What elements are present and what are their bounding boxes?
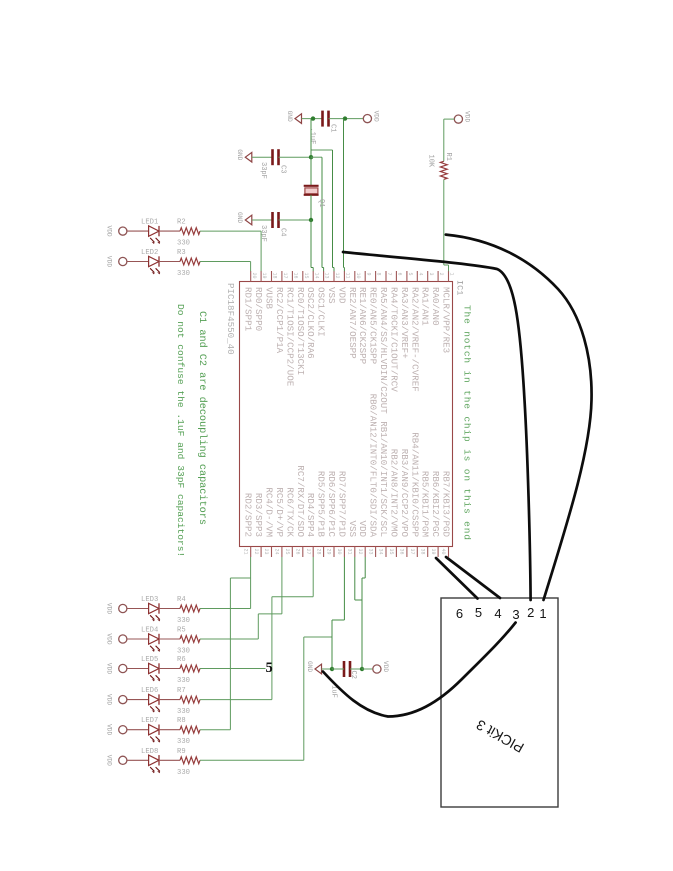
svg-text:GND: GND xyxy=(236,149,243,160)
svg-text:1: 1 xyxy=(539,606,546,621)
svg-text:3: 3 xyxy=(512,607,519,622)
svg-text:330: 330 xyxy=(177,738,190,746)
svg-text:VDD: VDD xyxy=(106,603,113,614)
wire riser to pin 30 xyxy=(343,557,345,620)
svg-text:9: 9 xyxy=(365,273,371,276)
wire VDD vertical from C1-right down to pin 11 xyxy=(343,119,345,268)
capacitor C3 plates xyxy=(273,149,279,165)
wire junction to VDD pin xyxy=(362,668,373,670)
resistor R8 330 xyxy=(180,726,200,733)
svg-text:RA0/AN0: RA0/AN0 xyxy=(430,287,441,326)
svg-text:4: 4 xyxy=(494,606,501,621)
svg-text:R2: R2 xyxy=(177,219,186,227)
resistor R1 vertical zigzag xyxy=(440,161,447,179)
svg-text:VDD: VDD xyxy=(464,111,471,122)
svg-text:6: 6 xyxy=(397,273,403,276)
svg-text:40: 40 xyxy=(440,549,446,555)
svg-text:19: 19 xyxy=(261,273,267,279)
svg-text:C4: C4 xyxy=(279,228,287,236)
pin 21 stub (RD2/SPP2) xyxy=(242,493,253,557)
svg-text:C1: C1 xyxy=(329,124,337,132)
svg-text:RE0/AN5/CK1SPP: RE0/AN5/CK1SPP xyxy=(368,287,379,365)
svg-text:GND: GND xyxy=(286,111,293,122)
svg-text:26: 26 xyxy=(294,549,300,555)
svg-text:24: 24 xyxy=(274,549,280,555)
wire net R8 staircase xyxy=(200,729,230,731)
svg-text:.1uF: .1uF xyxy=(308,128,316,145)
svg-text:VDD: VDD xyxy=(357,520,368,537)
svg-text:LED6: LED6 xyxy=(141,687,158,695)
capacitor C1 plates xyxy=(323,111,329,127)
svg-text:8: 8 xyxy=(376,273,382,276)
svg-text:RC7/RX/DT/SDO: RC7/RX/DT/SDO xyxy=(295,465,306,537)
pin 18 stub (VUSB) xyxy=(264,271,278,310)
svg-text:RD0/SPP0: RD0/SPP0 xyxy=(253,287,264,331)
pin 16 stub (RC1/T1OSI/CCP2/UOE) xyxy=(284,271,298,387)
wire VDD to LED6 anode xyxy=(127,699,149,701)
svg-text:VSS: VSS xyxy=(326,287,337,304)
pin 34 stub (RB1/AN10/INT1/SCK/SCL) xyxy=(378,421,389,557)
svg-text:5: 5 xyxy=(475,605,482,620)
svg-text:LED2: LED2 xyxy=(141,249,158,257)
svg-text:34: 34 xyxy=(378,549,384,555)
wire net R5 staircase to pin 24 xyxy=(200,638,258,640)
svg-text:RB7/KBI3/PGD: RB7/KBI3/PGD xyxy=(441,471,452,538)
wire VDD to LED4 anode xyxy=(127,638,149,640)
wire net R4 to pin 21 xyxy=(200,608,251,610)
svg-text:LED3: LED3 xyxy=(141,596,158,604)
resistor R6 330 xyxy=(180,665,200,672)
wire GND to C2 junction xyxy=(322,668,333,670)
junction node C2-left xyxy=(330,667,334,671)
pin 35 stub (RB2/AN8/INT2/VMO) xyxy=(388,449,399,557)
capacitor C2 plates xyxy=(344,661,350,677)
svg-text:RB6/KBI2/PGC: RB6/KBI2/PGC xyxy=(430,471,441,538)
wire LED4 cathode to R5 xyxy=(159,638,180,640)
junction node C1-right / VDD net xyxy=(343,116,347,120)
svg-text:LED4: LED4 xyxy=(141,627,158,635)
svg-text:5: 5 xyxy=(407,273,413,276)
wire MCLR jog to pin 1 xyxy=(444,264,449,266)
svg-text:RD6/SPP6/P1C: RD6/SPP6/P1C xyxy=(326,471,337,538)
svg-text:2: 2 xyxy=(438,273,444,276)
VDD supply pin above R1 xyxy=(454,111,470,123)
svg-text:RD5/SPP5/P1B: RD5/SPP5/P1B xyxy=(316,471,327,538)
svg-text:330: 330 xyxy=(177,240,190,248)
wire net R7 staircase to pin 27 xyxy=(200,699,272,701)
wire VDD to LED3 anode xyxy=(127,608,149,610)
pin 26 stub (RC7/RX/DT/SDO) xyxy=(294,465,305,557)
svg-text:5: 5 xyxy=(266,660,273,676)
wire C2 right plate to VDD junction xyxy=(350,668,362,670)
junction node OSC1/C3 xyxy=(309,155,313,159)
wire R1 bottom down (MCLR net) xyxy=(443,179,445,265)
svg-text:RE2/AN7/OESPP: RE2/AN7/OESPP xyxy=(347,287,358,359)
ground symbol near C4 xyxy=(236,212,252,225)
LED LED6 xyxy=(149,694,161,712)
wire VSS pin 31 short riser xyxy=(354,557,356,600)
black curve VDD net to PICKit pin 2 xyxy=(343,252,531,600)
pin 24 stub (RC5/D+/VP) xyxy=(274,487,285,557)
svg-text:39: 39 xyxy=(430,549,436,555)
pin 1 stub (MCLR/VPP/RE3) xyxy=(441,271,455,353)
crystal Q1 xyxy=(304,186,319,195)
pin 19 stub (RD0/SPP0) xyxy=(253,271,267,331)
svg-text:RA5/AN4/SS/HLVDIN/C2OUT: RA5/AN4/SS/HLVDIN/C2OUT xyxy=(378,287,389,414)
svg-text:36: 36 xyxy=(399,549,405,555)
wire LED2 cathode to R3 xyxy=(159,261,180,263)
svg-text:RA2/AN2/VREF-/CVREF: RA2/AN2/VREF-/CVREF xyxy=(409,287,420,392)
wire riser to pin 32 xyxy=(364,557,366,578)
svg-text:10K: 10K xyxy=(427,155,435,168)
LED LED3 xyxy=(149,603,161,621)
svg-text:VDD: VDD xyxy=(106,256,113,267)
svg-text:14: 14 xyxy=(313,273,319,279)
svg-text:R8: R8 xyxy=(177,717,186,725)
svg-text:25: 25 xyxy=(284,549,290,555)
pin 39 stub (RB6/KBI2/PGC) xyxy=(430,471,441,557)
svg-text:C3: C3 xyxy=(279,165,287,173)
svg-text:The notch in the chip is on th: The notch in the chip is on this end xyxy=(462,305,473,541)
wire OSC1 vertical down to pin 13 xyxy=(321,157,323,267)
junction node C1-left xyxy=(311,116,315,120)
svg-text:VDD: VDD xyxy=(106,724,113,735)
svg-text:LED1: LED1 xyxy=(141,219,158,227)
svg-text:32: 32 xyxy=(357,549,363,555)
svg-text:RC2/CCP1/P1A: RC2/CCP1/P1A xyxy=(274,287,285,354)
svg-text:RC1/T1OSI/CCP2/UOE: RC1/T1OSI/CCP2/UOE xyxy=(284,287,295,387)
svg-text:23: 23 xyxy=(263,549,269,555)
pin 14 stub (OSC2/CLKO/RA6) xyxy=(305,271,319,359)
capacitor C4 plates xyxy=(273,212,279,228)
wire net R9 staircase to GND node xyxy=(200,759,304,761)
pin 25 stub (RC6/TX/CK) xyxy=(284,487,295,557)
pin 10 stub (RE2/AN7/OESPP) xyxy=(347,271,361,359)
svg-text:R1: R1 xyxy=(444,153,452,161)
LED LED4 xyxy=(149,634,161,652)
svg-text:VSS: VSS xyxy=(347,520,358,537)
pin 32 stub (VDD) xyxy=(357,520,368,557)
wire junction down to crystal Q1 xyxy=(310,157,312,186)
svg-text:VDD: VDD xyxy=(106,755,113,766)
VDD supply pin for LED3 xyxy=(106,603,127,614)
svg-text:33pF: 33pF xyxy=(259,225,267,242)
svg-text:GND: GND xyxy=(236,212,243,223)
pin 30 stub (RD7/SPP7/P1D) xyxy=(336,471,347,557)
svg-text:RB4/AN11/KBI0/CSSPP: RB4/AN11/KBI0/CSSPP xyxy=(409,432,420,537)
pin 11 stub (VDD) xyxy=(336,271,350,304)
LED LED8 xyxy=(149,755,161,773)
svg-text:C1 and C2 are decoupling capac: C1 and C2 are decoupling capacitors xyxy=(196,311,208,525)
svg-text:38: 38 xyxy=(419,549,425,555)
wire junction to C2 left plate xyxy=(332,668,344,670)
resistor R5 330 xyxy=(180,636,200,643)
pin 38 stub (RB5/KBI1/PGM) xyxy=(419,471,430,557)
svg-text:VDD: VDD xyxy=(336,287,347,304)
wire VDD to LED1 anode xyxy=(127,230,149,232)
VDD supply pin for LED8 xyxy=(106,755,127,766)
wire OSC2 vertical down to pin 14 xyxy=(310,220,312,268)
pin 28 stub (RD5/SPP5/P1B) xyxy=(315,471,326,557)
svg-text:21: 21 xyxy=(242,549,248,555)
LED LED2 xyxy=(149,256,161,274)
svg-text:RC0/T1OSO/T13CKI: RC0/T1OSO/T13CKI xyxy=(295,287,306,375)
svg-text:RB1/AN10/INT1/SCK/SCL: RB1/AN10/INT1/SCK/SCL xyxy=(378,421,389,537)
pin 8 stub (RE0/AN5/CK1SPP) xyxy=(368,271,382,365)
svg-text:R7: R7 xyxy=(177,687,186,695)
LED LED7 xyxy=(149,725,161,743)
wire LED3 cathode to R4 xyxy=(159,608,180,610)
svg-text:OSC2/CLKO/RA6: OSC2/CLKO/RA6 xyxy=(305,287,316,359)
black line PGD pin 40 to PICKit pin 4 xyxy=(446,557,500,598)
pin 7 stub (RA5/AN4/SS/HLVDIN/C2OUT) xyxy=(378,271,392,414)
resistor R2 330 xyxy=(180,228,200,235)
svg-text:RD4/SPP4: RD4/SPP4 xyxy=(305,493,316,538)
svg-text:VDD: VDD xyxy=(106,633,113,644)
svg-text:Q1: Q1 xyxy=(317,199,325,207)
wire VSS vertical down to pin 12 xyxy=(332,150,334,268)
pin 9 stub (RE1/AN6/CK2SPP) xyxy=(357,271,371,365)
VDD supply pin for LED1 xyxy=(106,226,127,237)
svg-text:4: 4 xyxy=(417,273,423,276)
wire LED6 cathode to R7 xyxy=(159,699,180,701)
svg-text:7: 7 xyxy=(386,273,392,276)
svg-text:R6: R6 xyxy=(177,656,186,664)
svg-text:GND: GND xyxy=(306,661,313,672)
pin 6 stub (RA4/T0CKI/C1OUT/RCV) xyxy=(388,271,402,392)
wire OSC1 branch right xyxy=(311,156,322,158)
VDD supply pin for LED2 xyxy=(106,256,127,267)
wire VSS riser from C2-left up xyxy=(331,620,333,669)
wire net R2 to pin 19 xyxy=(200,230,261,232)
svg-text:15: 15 xyxy=(303,273,309,279)
pin 4 stub (RA2/AN2/VREF-/CVREF) xyxy=(409,271,423,392)
svg-text:R5: R5 xyxy=(177,627,186,635)
svg-text:RA4/T0CKI/C1OUT/RCV: RA4/T0CKI/C1OUT/RCV xyxy=(388,287,399,392)
wire VSS branch from C1-left vertical xyxy=(311,149,333,151)
pin 5 stub (RA3/AN3/VREF+) xyxy=(399,271,413,359)
VDD supply pin for LED7 xyxy=(106,724,127,735)
svg-text:28: 28 xyxy=(315,549,321,555)
resistor R4 330 xyxy=(180,605,200,612)
pin 36 stub (RB3/AN9/CCP2/VPO) xyxy=(399,449,410,557)
VDD supply pin above C1 xyxy=(363,111,379,123)
ground symbol near C1 xyxy=(286,111,302,124)
svg-text:20: 20 xyxy=(251,273,257,279)
wire down to R1 xyxy=(443,119,445,161)
pin 37 stub (RB4/AN11/KBI0/CSSPP) xyxy=(409,432,420,557)
svg-text:RD7/SPP7/P1D: RD7/SPP7/P1D xyxy=(336,471,347,538)
svg-text:31: 31 xyxy=(347,549,353,555)
svg-text:RA3/AN3/VREF+: RA3/AN3/VREF+ xyxy=(399,287,410,359)
LED LED1 xyxy=(149,226,161,244)
wire jog VSS to VDD riser xyxy=(355,599,362,601)
wire VDD riser from C2-right up xyxy=(361,578,363,669)
black curve GND to PICKit pin 3 xyxy=(323,623,516,717)
svg-text:330: 330 xyxy=(177,769,190,777)
svg-text:MCLR/VPP/RE3: MCLR/VPP/RE3 xyxy=(441,287,452,353)
svg-text:R3: R3 xyxy=(177,249,186,257)
svg-text:12: 12 xyxy=(334,273,340,279)
wire net R6 (ends at annotation 5) xyxy=(200,668,266,670)
black line PGC pin 39 to PICKit pin 5 xyxy=(436,558,478,599)
pin 27 stub (RD4/SPP4) xyxy=(305,493,316,557)
pin 31 stub (VSS) xyxy=(347,520,358,557)
svg-text:RC6/TX/CK: RC6/TX/CK xyxy=(284,487,295,537)
svg-text:RE1/AN6/CK2SPP: RE1/AN6/CK2SPP xyxy=(357,287,368,365)
svg-text:13: 13 xyxy=(324,273,330,279)
svg-text:C2: C2 xyxy=(349,671,357,679)
svg-text:RB0/AN12/INT0/FLT0/SDI/SDA: RB0/AN12/INT0/FLT0/SDI/SDA xyxy=(368,394,379,538)
svg-text:VDD: VDD xyxy=(382,661,389,672)
svg-text:VDD: VDD xyxy=(106,226,113,237)
wire MCLR into pin 1 stub xyxy=(448,265,450,271)
svg-text:RC4/D-/VM: RC4/D-/VM xyxy=(264,487,275,537)
VDD supply pin near C2 xyxy=(373,661,389,673)
svg-text:29: 29 xyxy=(326,549,332,555)
wire GND to C1 left junction xyxy=(302,118,323,120)
svg-text:330: 330 xyxy=(177,617,190,625)
pin 23 stub (RC4/D-/VM) xyxy=(263,487,274,557)
wire LED1 cathode to R2 xyxy=(159,230,180,232)
svg-text:VUSB: VUSB xyxy=(264,287,275,310)
pin 15 stub (RC0/T1OSO/T13CKI) xyxy=(295,271,309,375)
wire jog to pin 30 riser xyxy=(332,619,344,621)
svg-text:RD2/SPP2: RD2/SPP2 xyxy=(243,493,254,537)
svg-text:10: 10 xyxy=(355,273,361,279)
wire VDD to LED8 anode xyxy=(127,759,149,761)
svg-text:RC5/D+/VP: RC5/D+/VP xyxy=(274,487,285,537)
pin 40 stub (RB7/KBI3/PGD) xyxy=(440,471,451,557)
svg-text:VDD: VDD xyxy=(106,694,113,705)
wire crystal to C4 junction xyxy=(310,195,312,220)
wire VDD to LED2 anode xyxy=(127,261,149,263)
wire VDD circle to R1 top xyxy=(444,118,455,120)
svg-text:35: 35 xyxy=(388,549,394,555)
svg-text:IC1: IC1 xyxy=(455,280,465,295)
VDD supply pin for LED6 xyxy=(106,694,127,705)
svg-text:LED5: LED5 xyxy=(141,656,158,664)
ground symbol near C3 xyxy=(236,149,252,162)
svg-text:17: 17 xyxy=(282,273,288,279)
svg-text:18: 18 xyxy=(272,273,278,279)
svg-text:RA1/AN1: RA1/AN1 xyxy=(420,287,431,326)
VDD supply pin for LED4 xyxy=(106,633,127,644)
svg-text:LED7: LED7 xyxy=(141,717,158,725)
ground symbol near C2 xyxy=(306,661,322,674)
pin 33 stub (RB0/AN12/INT0/FLT0/SDI/SDA) xyxy=(367,394,378,557)
svg-text:6: 6 xyxy=(456,606,463,621)
svg-text:3: 3 xyxy=(428,273,434,276)
wire C3 right plate to OSC1 junction xyxy=(279,156,312,158)
wire LED7 cathode to R8 xyxy=(159,729,180,731)
LED LED5 xyxy=(149,663,161,681)
svg-text:LED8: LED8 xyxy=(141,748,158,756)
wire net R3 to pin 20 xyxy=(200,261,251,263)
svg-text:30: 30 xyxy=(336,549,342,555)
svg-text:VDD: VDD xyxy=(106,663,113,674)
svg-text:11: 11 xyxy=(345,273,351,279)
svg-text:33: 33 xyxy=(367,549,373,555)
pin 22 stub (RD3/SPP3) xyxy=(253,493,264,557)
svg-text:37: 37 xyxy=(409,549,415,555)
pin 29 stub (RD6/SPP6/P1C) xyxy=(326,471,337,557)
svg-text:RD3/SPP3: RD3/SPP3 xyxy=(253,493,264,537)
wire LED8 cathode to R9 xyxy=(159,759,180,761)
svg-text:330: 330 xyxy=(177,677,190,685)
pin 2 stub (RA0/AN0) xyxy=(430,271,444,326)
wire C1 right plate to VDD xyxy=(329,118,364,120)
wire GND to C4 left plate xyxy=(252,219,273,221)
svg-text:16: 16 xyxy=(293,273,299,279)
svg-text:22: 22 xyxy=(253,549,259,555)
junction node C2-right xyxy=(360,667,364,671)
resistor R9 330 xyxy=(180,757,200,764)
junction node OSC2/C4 xyxy=(309,218,313,222)
svg-text:330: 330 xyxy=(177,270,190,278)
wire jog to pin 32 xyxy=(362,577,365,579)
svg-text:VDD: VDD xyxy=(373,111,380,122)
wire LED5 cathode to R6 xyxy=(159,668,180,670)
svg-text:RB5/KBI1/PGM: RB5/KBI1/PGM xyxy=(420,471,431,537)
svg-text:RB2/AN8/INT2/VMO: RB2/AN8/INT2/VMO xyxy=(388,449,399,538)
svg-text:330: 330 xyxy=(177,708,190,716)
IC IC1 PIC18F4550 body xyxy=(240,282,453,547)
pin 12 stub (VSS) xyxy=(326,271,340,304)
svg-text:OSC1/CLKI: OSC1/CLKI xyxy=(316,287,327,337)
resistor R7 330 xyxy=(180,696,200,703)
wire C1-left down to C3 junction xyxy=(310,119,312,158)
PICKit 3 box xyxy=(441,598,558,807)
resistor R3 330 xyxy=(180,258,200,265)
wire C4 right plate to junction xyxy=(279,219,312,221)
black curve MCLR net to PICKit pin 1 xyxy=(446,235,592,600)
svg-text:RB3/AN9/CCP2/VPO: RB3/AN9/CCP2/VPO xyxy=(399,449,410,538)
svg-text:1: 1 xyxy=(449,273,455,276)
svg-text:33pF: 33pF xyxy=(259,162,267,179)
wire VDD to LED5 anode xyxy=(127,668,149,670)
svg-text:PIC18F4550_40: PIC18F4550_40 xyxy=(225,283,236,355)
pin 17 stub (RC2/CCP1/P1A) xyxy=(274,271,288,354)
svg-text:27: 27 xyxy=(305,549,311,555)
pin 13 stub (OSC1/CLKI) xyxy=(316,271,330,337)
pin 3 stub (RA1/AN1) xyxy=(420,271,434,326)
svg-text:R4: R4 xyxy=(177,596,186,604)
svg-text:R9: R9 xyxy=(177,748,186,756)
VDD supply pin for LED5 xyxy=(106,663,127,674)
wire GND to C3 left plate xyxy=(252,156,273,158)
svg-text:Do not confuse the .1uF and 33: Do not confuse the .1uF and 33pF capacit… xyxy=(175,304,186,557)
svg-text:2: 2 xyxy=(527,605,534,620)
wire VDD to LED7 anode xyxy=(127,729,149,731)
svg-text:330: 330 xyxy=(177,648,190,656)
pin 20 stub (RD1/SPP1) xyxy=(243,271,257,332)
svg-text:RD1/SPP1: RD1/SPP1 xyxy=(243,287,254,332)
